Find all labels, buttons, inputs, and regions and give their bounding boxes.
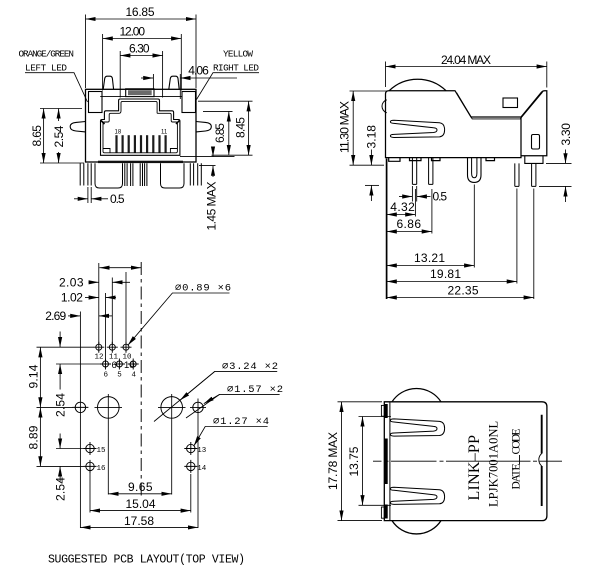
front view right side wing latch (196, 122, 211, 132)
svg-text:15: 15 (97, 447, 107, 455)
dim 13.75 line (362, 417, 364, 506)
front view cavity bottom corner notches (103, 149, 177, 153)
front view right LED window (182, 92, 196, 113)
callout 0.89 leader (128, 293, 230, 345)
pcb hole 13 (187, 444, 195, 452)
svg-text:1.45 MAX: 1.45 MAX (205, 182, 219, 231)
side view right panel bottom step (525, 156, 543, 164)
pcb hole 11 (109, 344, 115, 350)
svg-text:17.58: 17.58 (124, 514, 154, 528)
front view plug latch tab outer (126, 89, 154, 97)
top view rear inner wall line (541, 415, 543, 506)
top view latch spring bottom (390, 487, 444, 504)
dim 22.35 extension line (533, 189, 535, 300)
svg-text:16.85: 16.85 (126, 5, 155, 19)
svg-text:4: 4 (132, 372, 137, 380)
svg-text:8.45: 8.45 (234, 117, 248, 138)
dim 11.30 MAX line (352, 91, 354, 165)
label RIGHT LED leader (197, 73, 260, 100)
svg-text:∅0.89 ×6: ∅0.89 ×6 (175, 283, 231, 295)
svg-text:YELLOW: YELLOW (223, 49, 253, 60)
side view pin 2 (429, 158, 433, 184)
svg-text:CODE: CODE (510, 429, 522, 455)
svg-text:9.14: 9.14 (27, 364, 41, 388)
svg-text:22.35: 22.35 (448, 284, 479, 298)
svg-text:12.00: 12.00 (120, 25, 146, 39)
svg-text:2.69: 2.69 (45, 309, 66, 323)
pcb big 3.24 hole left (98, 397, 120, 419)
dim 3.18 lower reference line (365, 184, 379, 186)
dim 8.65 extension lines (40, 109, 84, 164)
dim 3.30 arrows (565, 150, 567, 164)
top view left shield tab bottom (381, 507, 384, 518)
dim 6.86 extension line (431, 189, 433, 234)
top view latch spring top (390, 419, 444, 436)
dim 17.78 MAX extension lines (338, 402, 383, 521)
side view top circular bump (389, 79, 446, 90)
side view small top rectangle hole (503, 98, 518, 108)
side master extension line left (386, 159, 388, 300)
svg-text:∅1.57 ×2: ∅1.57 ×2 (227, 384, 283, 396)
svg-text:13: 13 (197, 447, 207, 455)
svg-text:11.30 MAX: 11.30 MAX (338, 101, 352, 153)
front view RJ45 cavity inner outline (103, 101, 177, 152)
dim 13.75 extension lines (359, 417, 392, 506)
svg-text:17.78 MAX: 17.78 MAX (326, 432, 340, 490)
pcb hole 15 (86, 444, 94, 452)
top view center tick mark (519, 455, 521, 465)
pcb dim unlabeled top line (99, 267, 141, 269)
top view bottom circular arc (392, 521, 441, 534)
side view bottom tab 2 (432, 158, 441, 161)
dim 17.78 MAX line (341, 402, 343, 521)
dim 17.58 line (80, 526, 198, 528)
svg-text:12: 12 (95, 354, 104, 362)
svg-text:∅1.27 ×4: ∅1.27 ×4 (213, 416, 269, 428)
side view pin 3 (515, 163, 519, 186)
callout 1.57 leader (186, 394, 280, 418)
dim 0.5 front line with outside arrows (74, 198, 88, 200)
dim 1.45 MAX arrows (212, 147, 214, 157)
front view right top post (169, 76, 179, 89)
side view bottom tab 1 (410, 158, 422, 161)
svg-text:8.89: 8.89 (27, 425, 41, 449)
dim 24.04 MAX extension lines (386, 62, 547, 88)
side view body outline (386, 91, 547, 158)
pcb extension line hole12 (98, 263, 100, 344)
dim 6.30 extension lines (120, 51, 162, 98)
pcb vertical dashed centerline (140, 262, 142, 498)
front view legs (80, 163, 201, 188)
dim 3.30 extension lines (539, 163, 572, 186)
front view left LED window (89, 92, 103, 113)
svg-text:13.21: 13.21 (414, 251, 445, 265)
dim 16.85 line (86, 18, 197, 20)
dim 8.65 line (43, 109, 45, 164)
dim 6.85 extension lines (203, 111, 253, 155)
pcb hole 12 (96, 344, 102, 350)
front center thin leg pair (140, 163, 147, 186)
front view 9 contact bars (115, 135, 166, 152)
svg-text:RIGHT LED: RIGHT LED (213, 63, 259, 74)
svg-text:6.30: 6.30 (129, 42, 150, 56)
front left inner thin leg pair (125, 163, 133, 186)
side view bottom left foot (389, 158, 400, 162)
svg-text:4.32: 4.32 (390, 200, 415, 214)
dim 4.06 extension lines (153, 74, 180, 99)
side view inner diagonal double lines (457, 92, 543, 119)
dim 2.03 line with outside arrows (89, 281, 99, 283)
pcb hole row2 c (130, 361, 136, 367)
label LEFT LED leader (25, 73, 88, 102)
svg-text:2.03: 2.03 (59, 275, 84, 289)
svg-text:3.18: 3.18 (365, 125, 379, 149)
dim 0.5 side arrows (399, 196, 412, 198)
front view left side wing latch (70, 122, 85, 132)
dim 0.5 front extension lines (88, 187, 91, 203)
svg-text:5: 5 (117, 372, 122, 380)
dim 2.54 line front (58, 109, 60, 122)
front view left top post (103, 76, 113, 89)
svg-text:13.75: 13.75 (347, 446, 361, 476)
pcb big 3.24 hole right (161, 397, 183, 419)
front view cavity corner chamfer marks (101, 121, 179, 125)
dim 1.45 MAX reference lines (180, 157, 235, 166)
side view bottom tab 3 (486, 158, 495, 161)
dim 15.04 line (90, 510, 191, 512)
dim 12.00 line (103, 38, 182, 40)
front view bottom heavy bar (98, 161, 183, 163)
dim 2.54 upper arrows (59, 332, 61, 348)
top view rear wall notch (539, 454, 542, 467)
pcb right 1.57 hole (193, 402, 203, 412)
pcb extension line hole10 (125, 272, 127, 344)
dim 6.85 line (228, 111, 230, 155)
svg-text:LPJK7001A0NL: LPJK7001A0NL (487, 421, 501, 508)
dim 2.69 line with outside arrows (68, 315, 80, 317)
dim 2.54 lower arrows (59, 434, 61, 449)
dim 0.5 side extension lines (412, 186, 416, 202)
svg-text:8.65: 8.65 (30, 125, 44, 147)
dim 11.30 MAX extension lines (350, 91, 389, 165)
pcb hole 14 (187, 462, 195, 470)
dim 8.89 line (39, 407, 41, 466)
side view center locator post slot (472, 158, 477, 178)
svg-text:∅3.24 ×2: ∅3.24 ×2 (222, 361, 278, 373)
dim 8.45 extension line (198, 100, 253, 102)
dim 3.18 arrows (370, 150, 372, 166)
front left shield leg (95, 163, 123, 188)
dim 6.30 line (120, 55, 162, 57)
dim 15.04 extension lines (90, 471, 191, 513)
svg-text:0.5: 0.5 (433, 190, 448, 204)
front view plug latch tab fill (128, 90, 152, 95)
dim 16.85 extension lines (86, 15, 197, 89)
pcb hole 10 (123, 344, 129, 350)
svg-text:10: 10 (124, 360, 135, 371)
pcb hole row2 a (103, 361, 109, 367)
svg-text:LEFT LED: LEFT LED (25, 63, 67, 74)
dim 12.00 extension lines (103, 34, 182, 91)
svg-text:18: 18 (115, 129, 122, 135)
dim 13.21 extension line (473, 185, 475, 268)
callout 1.27 leader (194, 427, 268, 447)
dim 4.32 extension line (414, 189, 416, 217)
svg-text:3.30: 3.30 (559, 123, 573, 146)
side view pin 1 (412, 158, 416, 184)
dim 22.35 line (387, 297, 534, 299)
top view front face inner line (389, 402, 391, 521)
svg-text:4.06: 4.06 (188, 64, 209, 78)
callout 3.24 leader (154, 371, 277, 421)
svg-text:6.86: 6.86 (397, 217, 422, 231)
side view right panel small rectangle (532, 135, 540, 150)
pcb hole row2 b (116, 361, 122, 367)
top view body outline (384, 402, 547, 521)
dim 19.81 extension line (516, 189, 518, 284)
svg-text:2.54: 2.54 (52, 125, 66, 147)
side view latch spring fork (390, 120, 444, 137)
svg-text:9.65: 9.65 (128, 480, 153, 494)
dim 4.06 line with outside arrows (141, 77, 153, 79)
pcb hole 16 (86, 462, 94, 470)
dim 1.02 line with outside arrows (85, 297, 99, 299)
svg-text:6.85: 6.85 (213, 123, 227, 143)
dim 13.21 line (387, 265, 475, 267)
svg-text:19.81: 19.81 (430, 267, 461, 281)
callout 1.57 leader arrow (204, 394, 220, 403)
top view left shield tab top (381, 405, 384, 416)
top view front face dark segments (384, 404, 387, 519)
top view top circular arc (392, 388, 441, 401)
side view left side circular boss arc (382, 100, 387, 113)
pcb extension line hole11 (111, 278, 113, 345)
pcb left 1.57 hole (75, 402, 85, 412)
svg-text:2.54: 2.54 (54, 477, 68, 501)
side view center locator post outer (468, 158, 482, 183)
svg-text:2.54: 2.54 (54, 393, 68, 417)
svg-text:16: 16 (97, 465, 107, 473)
front right thin leg pair (190, 163, 201, 185)
svg-text:6: 6 (104, 372, 109, 380)
top view centerline dash-dot (373, 460, 562, 462)
dim 6.86 line (387, 231, 432, 233)
svg-text:1.02: 1.02 (61, 291, 83, 305)
svg-text:DATE: DATE (510, 464, 522, 490)
svg-text:6: 6 (112, 360, 117, 371)
pcb left extension lines (37, 347, 101, 466)
svg-text:11: 11 (161, 129, 168, 135)
svg-text:15.04: 15.04 (126, 497, 156, 511)
front view RJ45 cavity outer outline (101, 99, 180, 155)
svg-text:14: 14 (197, 465, 207, 473)
side view pin 4 (532, 163, 536, 186)
dim 19.81 line (387, 281, 517, 283)
callout 3.24 leader arrow (180, 371, 215, 400)
pcb extension line left hole (79, 312, 81, 529)
dim 9.65 line (108, 493, 171, 495)
dim 4.32 line (387, 214, 416, 216)
svg-text:LINK–PP: LINK–PP (466, 435, 483, 501)
front view body outline (86, 89, 197, 162)
svg-text:24.04 MAX: 24.04 MAX (441, 53, 491, 67)
svg-text:SUGGESTED PCB LAYOUT(TOP VIEW): SUGGESTED PCB LAYOUT(TOP VIEW) (48, 554, 245, 567)
svg-text:0.5: 0.5 (110, 192, 125, 206)
dim 9.14 line (39, 347, 41, 407)
front right shield leg (161, 163, 185, 188)
dim 8.45 line (248, 101, 250, 155)
pcb extension line row2a (105, 293, 107, 361)
front left thin leg pair (80, 163, 91, 185)
svg-text:ORANGE/GREEN: ORANGE/GREEN (19, 49, 75, 60)
front view shield fold line (100, 96, 182, 98)
dim 24.04 MAX line (386, 66, 547, 68)
